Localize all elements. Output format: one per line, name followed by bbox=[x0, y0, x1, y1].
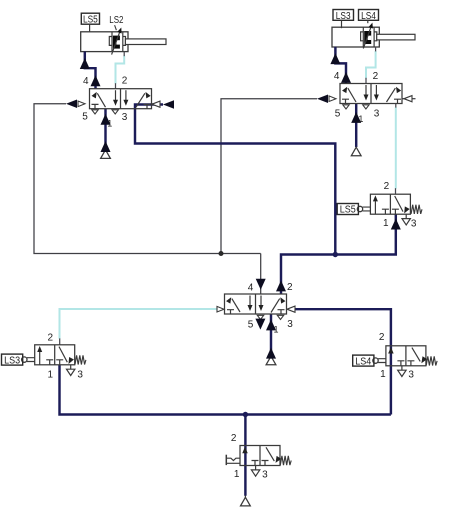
svg-text:1: 1 bbox=[358, 114, 363, 124]
svg-text:3: 3 bbox=[122, 112, 128, 123]
svg-text:2: 2 bbox=[373, 71, 379, 82]
svg-text:2: 2 bbox=[287, 282, 293, 293]
svg-text:1: 1 bbox=[273, 324, 278, 334]
svg-text:4: 4 bbox=[334, 71, 340, 82]
svg-text:5: 5 bbox=[82, 111, 88, 122]
svg-text:1: 1 bbox=[380, 369, 386, 380]
svg-text:LS4: LS4 bbox=[361, 11, 376, 22]
svg-text:2: 2 bbox=[48, 333, 54, 344]
svg-text:3: 3 bbox=[287, 319, 293, 330]
svg-text:LS3: LS3 bbox=[4, 355, 21, 366]
svg-text:LS2: LS2 bbox=[109, 15, 124, 26]
svg-text:1: 1 bbox=[48, 370, 54, 381]
svg-text:4: 4 bbox=[83, 76, 89, 87]
svg-text:LS5: LS5 bbox=[340, 205, 357, 216]
svg-text:3: 3 bbox=[374, 108, 380, 119]
svg-text:3: 3 bbox=[262, 470, 268, 481]
svg-text:LS3: LS3 bbox=[336, 11, 351, 22]
svg-text:1: 1 bbox=[234, 469, 240, 480]
svg-text:LS5: LS5 bbox=[83, 14, 98, 25]
svg-text:2: 2 bbox=[122, 75, 128, 86]
svg-text:2: 2 bbox=[384, 181, 390, 192]
svg-text:5: 5 bbox=[248, 319, 254, 330]
svg-text:3: 3 bbox=[411, 219, 417, 230]
svg-text:4: 4 bbox=[248, 282, 254, 293]
svg-text:3: 3 bbox=[77, 369, 83, 380]
svg-text:2: 2 bbox=[379, 332, 385, 343]
svg-text:1: 1 bbox=[383, 218, 389, 229]
svg-text:2: 2 bbox=[231, 433, 237, 444]
svg-text:1: 1 bbox=[107, 118, 112, 128]
svg-text:LS4: LS4 bbox=[355, 356, 372, 367]
svg-text:3: 3 bbox=[408, 370, 414, 381]
svg-text:5: 5 bbox=[335, 108, 341, 119]
